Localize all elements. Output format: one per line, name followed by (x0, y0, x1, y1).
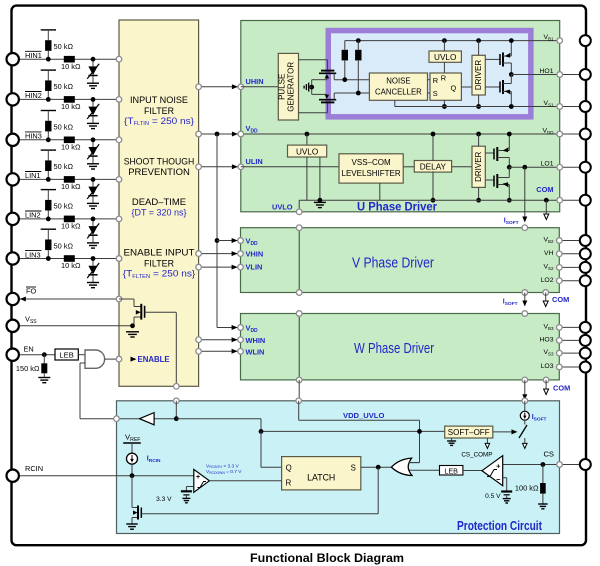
node VS2 on driver edge (557, 265, 563, 271)
ground VSS (126, 331, 139, 333)
RCIN discharge MOSFET (132, 476, 145, 524)
svg-text:UVLO: UVLO (434, 53, 456, 62)
wire latch S to OR gate (361, 466, 393, 468)
junction dots (LIN2) (46, 217, 96, 222)
svg-text:DEAD–TIME: DEAD–TIME (132, 197, 186, 208)
wire LO1 out (509, 166, 585, 168)
junction dot soft-off input (417, 429, 422, 434)
wire UHIN to pulse generator (241, 86, 278, 88)
svg-text:VSS: VSS (25, 314, 37, 325)
wire CS line (503, 464, 586, 466)
arrowhead UHIN (232, 84, 238, 89)
svg-text:COM: COM (536, 185, 553, 194)
wire set node to noise canceller (334, 79, 369, 81)
node UHIN on U driver edge (238, 84, 244, 90)
wires noise canceller to RS latch (428, 80, 431, 93)
ground (HIN1) (87, 83, 99, 88)
node VDD_UVLO on protection top edge (296, 398, 302, 404)
wire ISOFT (W) down (524, 380, 526, 396)
pin HO1 (580, 69, 591, 80)
input pin LIN1 (7, 173, 19, 185)
svg-text:R: R (433, 76, 438, 85)
node WHIN on filter edge (196, 337, 202, 343)
U phase driver block (green) (241, 21, 560, 212)
wire UVLO line from W driver to protection (298, 380, 300, 401)
node WLIN on W driver edge (238, 349, 244, 355)
svg-text:Functional Block Diagram: Functional Block Diagram (250, 553, 404, 565)
wire low-side driver to COM rail (478, 187, 480, 200)
wire fault line inside protection (154, 401, 176, 419)
pull-down resistor 100 k&#937; (CS) (515, 465, 546, 505)
wire reset node jog into high-side region (333, 93, 335, 100)
svg-text:COM: COM (552, 295, 569, 304)
node fault output on protection left edge (114, 416, 120, 422)
label HIN2 (active low) (25, 91, 42, 100)
pin LO3 (580, 362, 591, 373)
junction dot COM down arrow (544, 198, 549, 203)
input pin LIN3 (7, 252, 19, 264)
OR gate (set sources) (391, 458, 412, 475)
wire VB3 out (559, 326, 585, 328)
clamp zener diode (HIN1) (87, 64, 99, 79)
arrowhead WLIN (232, 349, 238, 354)
wire LIN2 input net (18, 190, 119, 243)
svg-text:PREVENTION: PREVENTION (128, 167, 190, 178)
svg-text:LIN2: LIN2 (25, 211, 41, 220)
junction dot fault to latch Q (259, 429, 264, 434)
svg-text:+: + (196, 474, 200, 481)
input pin LIN2 (7, 213, 19, 225)
node COM on W driver bottom edge (543, 377, 549, 383)
node VDD on filter edge (196, 131, 202, 137)
node on filter block edge (HIN1) (116, 56, 122, 62)
node ISOFT on protection top edge (522, 398, 528, 404)
svg-text:U Phase Driver: U Phase Driver (357, 200, 437, 214)
node UVLO on V driver bottom edge (296, 290, 302, 296)
wire EN (18, 354, 55, 356)
svg-text:VLIN: VLIN (246, 263, 263, 272)
wire VS3 out (559, 352, 585, 354)
series resistor 10 k&#937; (HIN1) (61, 56, 81, 71)
pull resistor R1 (set node) (342, 50, 348, 80)
clamp zener diode (HIN2) (87, 104, 99, 119)
wire LEB to CS comparator (463, 470, 482, 472)
wire soft-off output to switch (493, 431, 512, 433)
svg-text:PULSE: PULSE (278, 74, 287, 100)
junction dot latch bottom (442, 104, 447, 109)
ground (HIN2) (87, 123, 99, 128)
svg-text:ENABLE: ENABLE (138, 355, 170, 364)
wire pulse generator to level-shift transistor (top) (299, 60, 328, 70)
junction dot VSS (130, 323, 135, 328)
0.5 V reference battery (501, 492, 512, 499)
node ULIN on U driver edge (238, 164, 244, 170)
wire UHIN (filter to U phase driver) (199, 86, 238, 88)
RCIN comparator (194, 469, 210, 492)
series resistor 10 k&#937; (LIN3) (61, 255, 81, 270)
node FO on filter block edge (116, 296, 122, 302)
junction dot level-shift common (309, 85, 314, 90)
low-side output transistor (lower) (485, 167, 509, 200)
node ISOFT on W driver bottom edge (522, 377, 528, 383)
CS comparator (CS_COMP) (482, 456, 503, 486)
node UVLO on W driver bottom edge (296, 377, 302, 383)
pin EN (7, 349, 19, 361)
wire HIN1 input net (18, 30, 119, 83)
junction dot ISOFT tap on LO1 (522, 165, 527, 170)
junction dot VDD to low-side driver (476, 132, 481, 137)
junction dot VDD to low-side output (507, 132, 512, 137)
low-side driver box (472, 146, 485, 187)
level shift transistor Q1 (set) (312, 71, 337, 80)
wire LO2 out (559, 280, 585, 282)
label RCIN comparator thresholds (206, 463, 242, 475)
ground 0.5V reference (503, 498, 511, 500)
wire VB1 rail to driver (478, 41, 480, 56)
low-side output transistor (upper) (485, 134, 509, 167)
series resistor 10 k&#937; (LIN2) (61, 216, 81, 231)
series resistor 10 k&#937; (LIN1) (61, 176, 81, 191)
ISOFT current source (520, 401, 529, 425)
wire VLIN (filter to V phase driver) (199, 266, 238, 268)
svg-text:SHOOT THOUGH: SHOOT THOUGH (124, 156, 195, 167)
junction dot driver bottom (476, 104, 481, 109)
protection circuit block (cyan) (117, 401, 560, 534)
soft-off switch blade (519, 425, 527, 438)
node VDD right edge (557, 131, 563, 137)
svg-text:DRIVER: DRIVER (474, 151, 483, 181)
svg-text:HIN2: HIN2 (25, 91, 42, 100)
junction dot fault node (174, 416, 179, 421)
wire VDD vertical distribution bus (216, 134, 218, 328)
node HO3 on driver edge (557, 338, 563, 344)
junction dots (HIN2) (46, 97, 96, 102)
wire VB2 out (559, 240, 585, 242)
ground level-shift (rotated) (304, 83, 312, 92)
open arrow below switch (523, 438, 528, 448)
wire latch Q riser (261, 431, 282, 467)
wire VB1 rail (345, 41, 560, 50)
label T_FLTEN = 250 ns (123, 269, 196, 280)
wire fault to soft-off (176, 419, 444, 432)
open arrow COM (U) (544, 200, 549, 219)
wire level-shift common (311, 80, 313, 95)
wire levelshifter to delay (403, 166, 414, 168)
wire OR input from LEB (410, 469, 440, 471)
svg-text:R: R (441, 73, 446, 82)
svg-text:HO1: HO1 (540, 68, 554, 75)
node VS3 on driver edge (557, 350, 563, 356)
node on U driver bottom edge (UVLO line) (296, 209, 302, 215)
pin LO1 (580, 162, 591, 173)
wire ISOFT (U) down (524, 167, 526, 217)
wire pulse generator to level-shift transistor (bottom) (299, 103, 328, 112)
arrowhead toward FO pin (20, 297, 26, 302)
junction dot driver top (476, 38, 481, 43)
svg-text:LIN1: LIN1 (25, 171, 41, 180)
ground CS resistor (538, 503, 548, 505)
junction dot EN (42, 352, 47, 357)
pin LO2 (580, 275, 591, 286)
series resistor 10 k&#937; (HIN3) (61, 137, 81, 152)
arrowhead ISOFT (U) (522, 217, 527, 223)
ground EN resistor (38, 377, 50, 379)
svg-text:Protection Circuit: Protection Circuit (457, 518, 543, 533)
svg-text:NOISE: NOISE (386, 77, 410, 86)
pin VSS (7, 320, 19, 332)
wire RCIN comparator output to latch R (209, 480, 281, 482)
node VLIN on V driver edge (238, 264, 244, 270)
pin HO3 (580, 335, 591, 346)
svg-text:LO3: LO3 (541, 363, 554, 370)
label VREF (123, 432, 141, 443)
junction dot VDD to low-side UVLO (305, 132, 310, 137)
pin CS (580, 459, 591, 470)
pin RCIN (7, 470, 19, 482)
node ULIN on filter edge (196, 164, 202, 170)
svg-text:ULIN: ULIN (246, 157, 263, 166)
svg-text:FO: FO (26, 286, 37, 295)
wire HO1 out (511, 74, 585, 76)
wire HIN2 input net (18, 70, 119, 123)
junction dot UVLO ground tap (318, 198, 323, 203)
wire UVLO line through W driver (298, 314, 300, 380)
svg-text:INPUT NOISE: INPUT NOISE (130, 95, 188, 106)
svg-text:{DT = 320 ns}: {DT = 320 ns} (132, 208, 188, 219)
node ISOFT on V driver bottom edge (522, 290, 528, 296)
high-side output transistor (lower) (485, 75, 511, 107)
wire LIN3 input net (18, 229, 119, 282)
pin VDD (580, 129, 591, 140)
svg-text:S: S (433, 89, 438, 98)
svg-text:RCIN: RCIN (25, 464, 43, 473)
node VDD on W driver edge (238, 325, 244, 331)
junction dot VS1 output stage (509, 104, 514, 109)
wire VDD to low-side driver (478, 134, 480, 146)
wire VB1 rail to UVLO (443, 41, 445, 51)
ground COM rail tap (314, 201, 326, 203)
arrowhead VLIN (232, 265, 238, 270)
svg-text:ENABLE INPUT: ENABLE INPUT (124, 248, 195, 259)
svg-text:ISOFT: ISOFT (503, 299, 518, 308)
svg-text:10 kΩ: 10 kΩ (61, 222, 81, 231)
junction dot latch S node (376, 465, 381, 470)
soft-off box (445, 426, 493, 438)
clamp zener diode (LIN2) (87, 223, 99, 238)
input pin HIN2 (7, 93, 19, 105)
node COM on V driver bottom edge (543, 290, 549, 296)
svg-text:WLIN: WLIN (246, 347, 265, 356)
LEB box (EN input) (55, 349, 78, 360)
wire AND gate second input from protection circuit (80, 363, 117, 419)
junction dot low-side driver bottom (476, 198, 481, 203)
arrowhead VDD into U driver (232, 132, 238, 137)
svg-text:10 kΩ: 10 kΩ (61, 102, 81, 111)
pin FO (7, 293, 19, 305)
svg-text:UHIN: UHIN (246, 77, 264, 86)
wire HO3 out (559, 339, 585, 341)
label LIN1 (active low) (25, 171, 42, 180)
label HIN3 (active low) (25, 132, 42, 141)
wire driver to VS1 rail (478, 95, 480, 107)
svg-text:10 kΩ: 10 kΩ (61, 62, 81, 71)
svg-text:−: − (496, 475, 501, 484)
wire set node jog into high-side region (333, 73, 335, 79)
label T_FLTIN = 250 ns (124, 116, 195, 127)
label INPUT NOISE FILTER (130, 95, 188, 117)
svg-text:3.3 V: 3.3 V (156, 496, 172, 503)
svg-text:0.5 V: 0.5 V (485, 493, 501, 500)
node VB2 on driver edge (557, 238, 563, 244)
svg-text:50 kΩ: 50 kΩ (54, 42, 74, 51)
wire HIN3 input net (18, 111, 119, 164)
node ISOFT on W driver top edge (522, 311, 528, 317)
node ISOFT on V driver top edge (522, 225, 528, 231)
svg-text:Q: Q (451, 83, 457, 92)
arrowhead VDD into V driver (232, 238, 238, 243)
clamp zener diode (LIN3) (87, 263, 99, 278)
svg-text:Q: Q (286, 463, 292, 472)
high-side UVLO box (429, 51, 461, 62)
pull-up resistor 50 k&#937; (LIN2) (45, 200, 73, 211)
arrowhead ISOFT (V) (522, 301, 527, 307)
junction dot set node (342, 77, 347, 82)
node VB3 on driver edge (557, 325, 563, 331)
high-side RS latch box (430, 73, 461, 100)
node UVLO on W driver top edge (296, 311, 302, 317)
clamp zener diode (LIN1) (87, 184, 99, 199)
svg-text:150 kΩ: 150 kΩ (16, 364, 40, 373)
svg-text:VDD_UVLO: VDD_UVLO (343, 411, 384, 420)
node UHIN on filter edge (196, 84, 202, 90)
RCIN pull-up current source IRCIN (127, 443, 138, 476)
svg-text:UVLO: UVLO (272, 202, 293, 211)
node on filter block edge (LIN2) (116, 216, 122, 222)
node fault line on protection top edge (174, 398, 180, 404)
node VH on driver edge (557, 251, 563, 257)
delay box (414, 161, 451, 173)
pin VB2 (580, 235, 591, 246)
latch box (fault latch) (282, 457, 361, 490)
pin VB3 (580, 322, 591, 333)
high-side output transistor (upper) (485, 41, 511, 75)
svg-text:50 kΩ: 50 kΩ (54, 202, 74, 211)
wire RCIN (18, 475, 194, 477)
svg-text:W Phase Driver: W Phase Driver (354, 340, 434, 357)
wire fault gate to protection circuit (175, 312, 177, 386)
junction dots (LIN3) (46, 256, 96, 261)
svg-text:LEB: LEB (444, 466, 458, 475)
LEB box (CS comparator output) (440, 466, 463, 476)
low-side UVLO box (288, 134, 327, 157)
node WHIN on W driver edge (238, 337, 244, 343)
arrowhead WHIN (232, 337, 238, 342)
pin VH (580, 248, 591, 259)
wire VDD rail (U driver low side) (241, 133, 586, 135)
wire VDD rail through delay branch (432, 134, 434, 200)
node ENABLE on filter block edge (116, 356, 122, 362)
svg-text:DELAY: DELAY (420, 163, 447, 172)
wire VS2 out (559, 266, 585, 268)
level shift transistor Q2 (reset) (312, 94, 337, 102)
svg-text:EN: EN (24, 344, 34, 353)
wire VH out (559, 253, 585, 255)
svg-text:VHIN: VHIN (246, 250, 264, 259)
node VDD on U driver edge (238, 131, 244, 137)
svg-text:LIN3: LIN3 (25, 250, 41, 259)
wire VSS (18, 325, 133, 327)
ground soft-off (447, 438, 456, 445)
label SHOOT THOUGH PREVENTION (124, 156, 195, 178)
wire RCIN comparator negative input to 3.3V reference (186, 487, 193, 492)
svg-text:10 kΩ: 10 kΩ (61, 261, 81, 270)
svg-text:WHIN: WHIN (246, 336, 266, 345)
ground 3.3V reference (182, 497, 190, 499)
wire OR input from VDD_UVLO (409, 462, 420, 464)
svg-text:CS_COMP: CS_COMP (461, 451, 492, 458)
svg-text:SOFT–OFF: SOFT–OFF (448, 428, 490, 437)
junction dot VB1 to output stage (509, 38, 514, 43)
pull-up resistor 50 k&#937; (HIN3) (45, 121, 73, 132)
wire UVLO to latch R input (443, 62, 445, 73)
node VDD on V driver edge (238, 238, 244, 244)
svg-text:VRCDOWN = 0.7 V: VRCDOWN = 0.7 V (206, 469, 242, 475)
svg-text:LO1: LO1 (541, 160, 554, 167)
junction dot RCIN node (130, 473, 135, 478)
ground (LIN2) (87, 243, 99, 248)
svg-text:COM: COM (553, 384, 570, 393)
junction dots (HIN3) (46, 137, 96, 142)
junction dot VDD distribution (215, 132, 220, 137)
junction dot UVLO top (442, 38, 447, 43)
ground discharge MOSFET (126, 523, 138, 525)
wire VDD (filter edge to U phase driver) (199, 133, 238, 135)
pin VS3 (580, 348, 591, 359)
node LO1 on driver edge (557, 164, 563, 170)
node on filter block edge (HIN3) (116, 137, 122, 143)
pin COM (580, 195, 591, 206)
junction dot reset node (356, 91, 361, 96)
svg-text:10 kΩ: 10 kΩ (61, 182, 81, 191)
node VS1 on driver edge (557, 104, 563, 110)
label FO (active low) (26, 286, 37, 295)
arrowhead VDD into W driver (232, 325, 238, 330)
junction dots (HIN1) (46, 57, 96, 62)
pulse generator box (278, 53, 299, 120)
floating high-side region (purple frame) (326, 28, 534, 120)
node on filter block bottom edge (fault line) (174, 384, 180, 390)
svg-text:UVLO: UVLO (296, 147, 318, 156)
arrowhead ULIN (232, 164, 238, 169)
arrowhead ENABLE (131, 357, 137, 362)
wire buffer output to left edge (117, 418, 140, 420)
svg-text:VSS–COM: VSS–COM (352, 158, 391, 167)
svg-text:HIN3: HIN3 (25, 132, 42, 141)
wire AND output to ENABLE (105, 358, 119, 360)
label LIN3 (active low) (25, 250, 42, 259)
label LIN2 (active low) (25, 211, 42, 220)
node on filter block edge (LIN1) (116, 177, 122, 183)
svg-text:CANCELLER: CANCELLER (375, 88, 422, 97)
input filter / logic block (yellow) (119, 20, 199, 386)
wire VDD to V phase driver (217, 240, 238, 242)
pull-up resistor 50 k&#937; (LIN1) (45, 160, 73, 171)
node LO3 on driver edge (557, 364, 563, 370)
svg-text:V Phase Driver: V Phase Driver (352, 255, 434, 272)
wire WHIN (filter to W phase driver) (199, 339, 238, 341)
3.3 V reference battery (181, 491, 192, 498)
noise canceller box (369, 73, 427, 100)
